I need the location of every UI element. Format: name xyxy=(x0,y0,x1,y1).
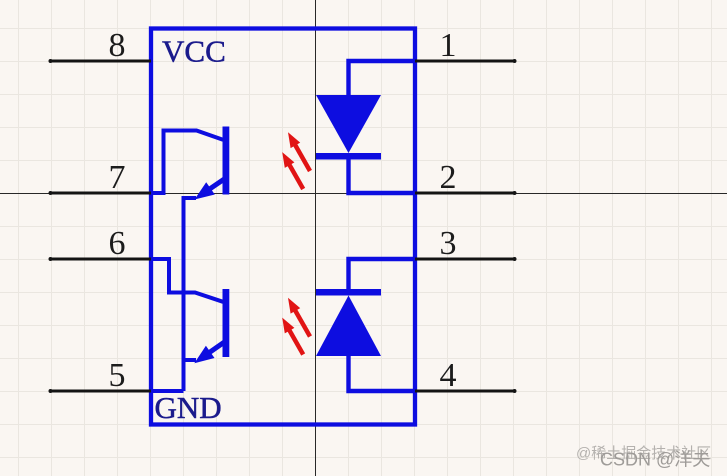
phototransistor Q1 emitter line xyxy=(207,179,224,191)
pin 4 wire xyxy=(415,389,517,393)
LED D2 anode wire xyxy=(349,355,415,391)
LED D1 cathode bar xyxy=(316,153,381,160)
light arrow channel 1 upper xyxy=(288,132,310,171)
pin 6 wire xyxy=(49,257,152,261)
svg-text:5: 5 xyxy=(109,357,126,394)
svg-text:3: 3 xyxy=(440,225,457,262)
svg-text:4: 4 xyxy=(440,357,457,394)
phototransistor Q2 emitter line xyxy=(208,342,225,354)
pin 8 wire xyxy=(49,59,152,63)
LED D1 anode wire xyxy=(349,61,415,95)
svg-text:VCC: VCC xyxy=(162,34,226,69)
phototransistor Q2 emitter arrowhead xyxy=(194,346,214,363)
pin 1 wire xyxy=(415,59,517,63)
component body outline U1 xyxy=(151,29,415,425)
phototransistor Q2 base bar xyxy=(223,289,230,357)
svg-text:CSDN @洋夫: CSDN @洋夫 xyxy=(600,450,710,470)
pin 5 wire xyxy=(49,389,152,393)
light arrow channel 2 lower xyxy=(282,318,303,355)
pin 2 wire xyxy=(415,191,517,195)
phototransistor Q1 base bar xyxy=(223,127,230,195)
LED D1 cathode wire xyxy=(349,159,415,193)
light arrow channel 1 lower xyxy=(282,152,303,189)
phototransistor Q2 collector wire from pin 6 xyxy=(151,259,223,302)
pin 3 wire xyxy=(415,257,517,261)
vertical axis line xyxy=(315,0,317,476)
pin 7 wire xyxy=(49,191,152,195)
phototransistor Q1 collector wire from pin 7 xyxy=(151,131,223,194)
LED D1 triangle xyxy=(316,95,381,153)
svg-text:1: 1 xyxy=(440,27,457,64)
svg-text:2: 2 xyxy=(440,159,457,196)
LED D2 triangle xyxy=(316,296,381,357)
svg-text:6: 6 xyxy=(109,225,126,262)
LED D2 cathode bar xyxy=(316,289,381,296)
emitter stub wire of Q2 xyxy=(184,358,197,362)
horizontal axis line xyxy=(0,193,727,195)
pin 5 stub wire to emitter rail xyxy=(151,389,184,393)
LED D2 cathode wire xyxy=(349,259,415,290)
svg-text:7: 7 xyxy=(109,159,126,196)
emitter net wire of Q1 joining vertical rail xyxy=(184,198,197,391)
svg-text:8: 8 xyxy=(109,27,126,64)
svg-text:GND: GND xyxy=(155,390,222,425)
phototransistor Q1 emitter arrowhead xyxy=(195,182,215,199)
light arrow channel 2 upper xyxy=(288,298,310,337)
